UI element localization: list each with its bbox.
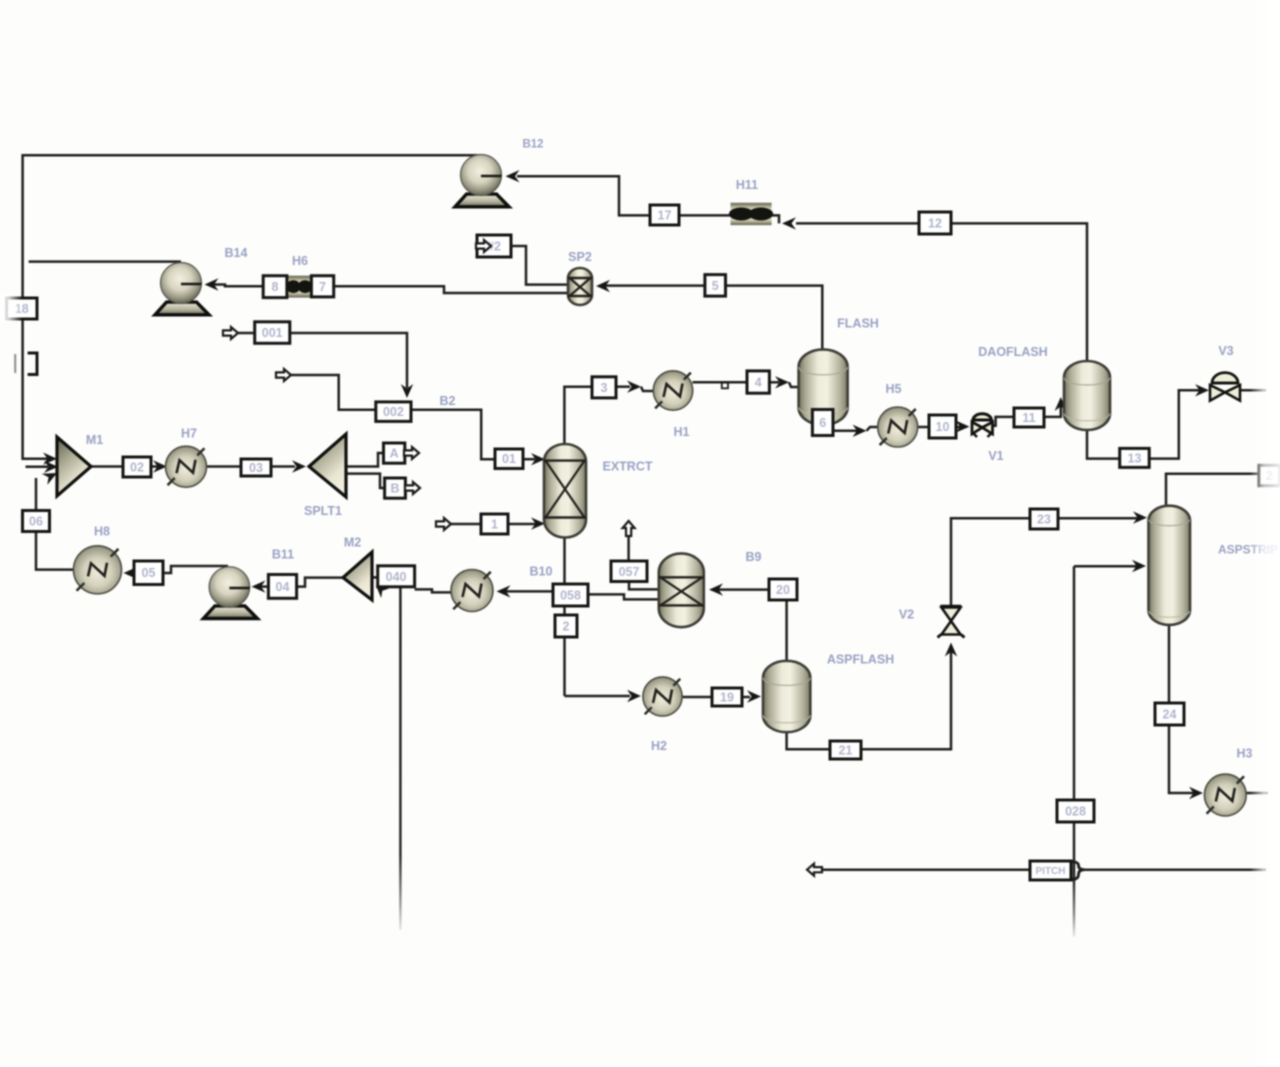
svg-text:11: 11 xyxy=(1022,411,1035,425)
svg-text:B12: B12 xyxy=(522,139,543,151)
wire stream B2 from 002 to label 01 xyxy=(411,410,495,459)
stream label 7 xyxy=(311,276,333,297)
svg-text:13: 13 xyxy=(1128,451,1142,465)
svg-text:SP2: SP2 xyxy=(568,250,592,264)
pump B12 xyxy=(455,155,509,207)
arrowhead into V2 bottom xyxy=(945,643,957,657)
svg-text:3: 3 xyxy=(601,381,608,395)
arrowhead into EXTRCT lower inlet xyxy=(531,517,545,529)
wire PITCH product line left part xyxy=(822,868,1030,871)
wire ASPFLASH bottom to label 21 xyxy=(787,732,830,749)
stream label 23 xyxy=(1030,509,1058,529)
stream label B xyxy=(385,478,406,498)
wire jog into FLASH xyxy=(789,382,799,387)
arrowhead into V1 xyxy=(956,420,970,432)
wire label 02 to H7 xyxy=(151,465,160,468)
arrowhead into B14 xyxy=(205,278,219,290)
svg-text:B2: B2 xyxy=(440,394,456,408)
extraction column EXTRCT xyxy=(544,444,586,538)
wire DAOFLASH bottom to label 13 xyxy=(1087,430,1120,459)
open arrow product A xyxy=(404,447,419,459)
wire label 17 to valve H11 xyxy=(679,214,731,217)
heat exchanger H5 xyxy=(878,407,918,447)
open arrow vent 057 xyxy=(623,521,635,536)
wire label 10 to V1 xyxy=(956,426,960,429)
svg-text:10: 10 xyxy=(936,420,950,434)
arrowhead into B12 xyxy=(506,170,520,182)
arrowhead into V3 xyxy=(1195,384,1209,396)
wire B9 to label 057 xyxy=(629,583,658,589)
svg-text:B14: B14 xyxy=(225,246,248,260)
wire label 3 to H1 xyxy=(616,385,630,388)
wire ASPSTR bottoms through label 24 to H3 xyxy=(1169,626,1194,793)
open arrow feed to 002 xyxy=(276,369,291,381)
heat exchanger H1 xyxy=(653,371,692,410)
stream label 19 xyxy=(712,688,742,706)
wire H2 to label 19 xyxy=(682,696,712,699)
stream label 5 xyxy=(705,275,726,297)
stream label 01 xyxy=(495,449,523,469)
svg-text:057: 057 xyxy=(619,565,640,579)
arrowhead into H11 from stream 12 xyxy=(782,217,796,229)
wire label 04 to B11 xyxy=(258,585,268,588)
stream label 20 xyxy=(769,579,797,600)
wire label 4 to FLASH xyxy=(769,381,779,384)
arrowhead into H7 xyxy=(153,460,167,472)
wire feed into M1 middle inlet xyxy=(26,466,49,469)
wire stream 028 riser xyxy=(1073,566,1076,937)
wire EXTRCT bottoms through 058/2 xyxy=(563,537,566,696)
wire jog into H5 xyxy=(867,427,879,431)
svg-text:24: 24 xyxy=(1163,708,1177,722)
svg-text:002: 002 xyxy=(383,405,404,419)
wire label 13 up to V3 xyxy=(1149,390,1200,458)
arrowhead into ASPSTR lower inlet xyxy=(1132,560,1146,572)
wire stream 20: ASPFLASH top to B9 xyxy=(714,590,787,661)
stream label 028 xyxy=(1057,800,1094,822)
stream label 2 xyxy=(555,615,577,637)
wire stream 058 junction to B10 xyxy=(505,590,553,593)
wire ASPSTR overhead to edge label xyxy=(1166,474,1259,505)
arrowhead into ASPSTR upper inlet xyxy=(1133,511,1147,523)
stream label 04 xyxy=(268,575,296,599)
svg-text:1: 1 xyxy=(491,518,498,532)
wire jog into H1 xyxy=(641,387,654,391)
flash drum ASPFLASH xyxy=(763,661,810,732)
clipped stream label bracket at left edge xyxy=(28,353,37,375)
arrowhead up into DAOFLASH xyxy=(1055,397,1067,411)
wire feed into label 1 xyxy=(451,523,481,526)
svg-text:058: 058 xyxy=(560,589,581,603)
svg-text:FLASH: FLASH xyxy=(837,317,879,331)
wire label 1 to EXTRCT xyxy=(508,523,536,526)
stream label 06 xyxy=(23,511,50,532)
heat exchanger H7 xyxy=(166,446,207,487)
svg-text:5: 5 xyxy=(712,279,719,293)
stream label 002 xyxy=(376,402,411,422)
mixer M2 xyxy=(343,552,372,600)
wire label 040 stub into M2 xyxy=(371,576,378,579)
svg-text:03: 03 xyxy=(249,461,263,475)
svg-text:B11: B11 xyxy=(272,548,294,562)
svg-text:040: 040 xyxy=(386,570,407,584)
svg-text:H1: H1 xyxy=(674,425,690,439)
heat exchanger H3 xyxy=(1204,774,1246,816)
wire 058 junction to B9 xyxy=(588,594,658,599)
open arrow product B xyxy=(405,482,420,494)
stream label 057 xyxy=(611,561,647,582)
svg-text:A: A xyxy=(390,447,399,461)
svg-text:B10: B10 xyxy=(530,565,553,579)
arrowhead into B11 xyxy=(252,580,266,592)
wire stream 04: M2 outlet to label 04 xyxy=(297,578,343,587)
svg-text:01: 01 xyxy=(502,452,516,466)
wire label 19 to ASPFLASH xyxy=(742,696,750,699)
stream label 1 xyxy=(481,514,508,534)
stream label 17 xyxy=(650,205,679,225)
wire label 05 to H8 xyxy=(128,572,134,575)
stream label 21 xyxy=(830,741,861,759)
stream label 12 xyxy=(919,212,951,234)
wire feed into label 001 xyxy=(238,332,255,335)
wire 028 to ASPSTR lower inlet xyxy=(1074,565,1139,568)
svg-text:B9: B9 xyxy=(746,550,762,564)
arrowhead into M2 base (NW) xyxy=(376,586,389,599)
svg-text:H2: H2 xyxy=(651,739,667,753)
open arrow feed 001 xyxy=(223,327,238,339)
svg-text:PITCH: PITCH xyxy=(1036,866,1066,877)
arrowhead into SPLT1 xyxy=(292,460,306,472)
svg-text:6: 6 xyxy=(819,416,826,430)
column ASPSTR xyxy=(1149,506,1191,625)
wire feed into 002 junction xyxy=(291,375,376,410)
svg-text:M1: M1 xyxy=(86,433,103,447)
svg-text:V1: V1 xyxy=(988,449,1003,463)
wire label 6 to H5 xyxy=(833,430,857,433)
wire label 23 to ASPSTR xyxy=(1058,517,1140,520)
stream label 02 xyxy=(123,457,151,477)
wire H3 outlet to right edge xyxy=(1246,792,1268,795)
svg-text:SPLT1: SPLT1 xyxy=(304,504,342,518)
stream label 001 xyxy=(255,322,290,344)
wire stream 18: B12 top to M1 inlet xyxy=(23,155,481,458)
stream label #2 xyxy=(477,235,511,257)
valve V2 xyxy=(938,606,965,637)
heat exchanger H8 xyxy=(74,546,122,594)
stream label 10 xyxy=(929,415,956,438)
line hop over 028 riser xyxy=(1070,862,1085,880)
tiny junction square node xyxy=(722,383,728,389)
arrowhead into H1 xyxy=(627,381,641,393)
heat exchanger B10 xyxy=(451,570,493,612)
wire V2 top to label 23 xyxy=(951,518,1030,605)
pump B14 xyxy=(155,263,209,315)
open arrow on label #2 xyxy=(476,240,491,252)
svg-text:DAOFLASH: DAOFLASH xyxy=(978,345,1047,359)
wire stream 040 riser from bottom xyxy=(399,587,402,930)
wire M1 outlet to label 02 xyxy=(91,465,123,468)
wire H1 to label 4 xyxy=(693,381,748,384)
arrowhead into ASPFLASH xyxy=(747,690,761,702)
wire label 8 to B14 xyxy=(210,285,263,287)
svg-text:H7: H7 xyxy=(181,427,197,441)
svg-text:05: 05 xyxy=(142,566,156,580)
wire SPLT1 to product B xyxy=(346,474,385,488)
wire label 7 through H6 xyxy=(287,285,311,288)
arrowhead down into 002 xyxy=(401,384,413,398)
svg-text:17: 17 xyxy=(658,209,672,223)
arrowhead into SP2 xyxy=(596,280,610,292)
flash drum DAOFLASH xyxy=(1064,361,1110,430)
drum B9 xyxy=(659,553,704,627)
svg-text:M2: M2 xyxy=(344,536,361,550)
wire SP2 to label 7 xyxy=(334,286,567,293)
stream label 3 xyxy=(592,377,616,398)
arrowhead into H8 xyxy=(124,567,138,579)
splitter SP2 xyxy=(568,268,592,305)
svg-text:19: 19 xyxy=(720,691,734,705)
stream label 8 xyxy=(263,276,287,298)
valve V3 xyxy=(1210,373,1240,401)
arrowhead into M1 lower inlet (angled) xyxy=(42,473,57,485)
valve H6 xyxy=(286,276,312,298)
wire stream 06: H8 to M1 lower inlet xyxy=(36,478,74,570)
arrowhead into B9 xyxy=(709,583,723,595)
svg-text:04: 04 xyxy=(276,580,290,594)
arrowhead into H3 xyxy=(1189,787,1203,799)
wire 001 down to 002 junction xyxy=(290,333,407,388)
svg-text:4: 4 xyxy=(755,376,762,390)
svg-text:028: 028 xyxy=(1065,805,1086,819)
wire B12 top tangent xyxy=(480,154,483,157)
wire V3 outlet to right edge xyxy=(1240,389,1266,392)
stream label 13 xyxy=(1120,448,1150,467)
svg-text:V3: V3 xyxy=(1218,344,1233,358)
svg-text:V2: V2 xyxy=(899,608,914,622)
wire V1 to label 11 xyxy=(992,417,1014,426)
wire label 17 to B12 riser xyxy=(517,176,650,215)
svg-text:23: 23 xyxy=(1037,513,1051,527)
wire stream 12 to DAOFLASH top xyxy=(951,223,1087,362)
stream label PITCH xyxy=(1030,861,1071,880)
arrowhead into FLASH xyxy=(775,376,789,388)
svg-text:12: 12 xyxy=(928,217,942,231)
stream label 040 xyxy=(378,566,415,587)
arrowhead into EXTRCT top inlet xyxy=(531,453,545,465)
wire label 21 up to V2 xyxy=(861,650,951,749)
wire SPLT1 to product A xyxy=(346,453,384,467)
splitter SPLT1 xyxy=(309,434,346,497)
stream label 4 xyxy=(747,371,769,393)
flash drum FLASH xyxy=(799,349,848,425)
svg-text:EXTRCT: EXTRCT xyxy=(603,460,653,474)
left fade over label 18 xyxy=(0,294,22,322)
stream label A xyxy=(384,443,405,463)
arrowhead into H5 xyxy=(853,425,867,437)
wire H11 right jog xyxy=(772,215,779,223)
svg-text:20: 20 xyxy=(776,583,790,597)
svg-text:001: 001 xyxy=(262,326,283,340)
stream label 18 xyxy=(7,298,38,319)
wire stream 05: B11 top to label 05 xyxy=(163,566,228,573)
stream label 11 xyxy=(1014,408,1044,427)
svg-text:06: 06 xyxy=(29,515,43,529)
wire label 01 to EXTRCT xyxy=(523,458,535,461)
stream label 05 xyxy=(134,561,163,585)
arrowhead into H2 xyxy=(627,690,641,702)
wire label 11 to DAOFLASH xyxy=(1044,404,1061,417)
wire stream 12 left part xyxy=(796,222,919,225)
heat exchanger H2 xyxy=(643,677,682,716)
wire label 03 to SPLT1 xyxy=(271,465,295,468)
stream label at right edge xyxy=(1259,465,1280,485)
svg-text:7: 7 xyxy=(319,280,326,294)
wire FLASH bottom into label 6 xyxy=(822,420,833,431)
wire SP2 to product #2 xyxy=(511,246,568,285)
valve H11 xyxy=(729,203,773,225)
wire EXTRCT overhead to label 3 xyxy=(564,387,592,447)
wire label 5 to SP2 xyxy=(601,284,705,287)
svg-text:02: 02 xyxy=(130,461,144,475)
arrowhead into M1 middle inlet xyxy=(44,461,58,473)
wire label 040 to B10 xyxy=(415,589,452,592)
svg-text:H8: H8 xyxy=(94,525,110,539)
right edge fade strip xyxy=(1250,0,1280,1067)
stream label 058 xyxy=(553,584,588,606)
svg-text:2: 2 xyxy=(563,620,570,634)
svg-text:H6: H6 xyxy=(292,254,308,268)
wire H7 to label 03 xyxy=(207,465,242,468)
svg-text:8: 8 xyxy=(272,280,279,294)
arrowhead into M1 upper inlet xyxy=(43,453,57,465)
wire B14 top outlet going left xyxy=(29,260,181,263)
open arrow PITCH product (points left) xyxy=(807,864,822,876)
open arrow feed 1 xyxy=(436,518,451,530)
wire label 057 vent riser xyxy=(627,536,630,561)
svg-text:B: B xyxy=(390,482,399,496)
valve V1 xyxy=(972,414,993,437)
stream label 6 xyxy=(812,410,833,436)
stream label 03 xyxy=(241,459,271,476)
mixer M1 xyxy=(57,437,91,496)
arrowhead into B10 xyxy=(497,585,511,597)
pump B11 xyxy=(203,567,257,619)
svg-text:H5: H5 xyxy=(886,382,902,396)
stream label 24 xyxy=(1155,703,1184,725)
wire H5 to label 10 xyxy=(918,426,930,429)
wire FLASH top to label 5 xyxy=(726,286,823,352)
wire stream 2 to H2 xyxy=(565,695,631,698)
svg-text:ASPFLASH: ASPFLASH xyxy=(827,653,894,667)
svg-text:H11: H11 xyxy=(736,178,758,192)
wire PITCH product line right part xyxy=(1084,868,1266,871)
svg-text:21: 21 xyxy=(839,744,853,758)
